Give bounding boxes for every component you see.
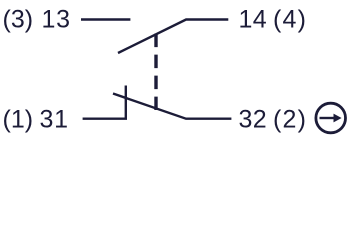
terminal label (3)13 bbox=[3, 6, 71, 34]
svg-text:(3): (3) bbox=[3, 6, 34, 34]
svg-text:31: 31 bbox=[40, 106, 69, 134]
wire: actuator dashed link bbox=[154, 34, 157, 110]
wire: lead 31 with fixed contact bar bbox=[83, 86, 126, 119]
svg-text:(4): (4) bbox=[273, 6, 307, 34]
terminal label (1)31 bbox=[3, 106, 69, 134]
svg-text:(1): (1) bbox=[3, 106, 34, 134]
contact NO 13-14 moving arm bbox=[118, 20, 228, 54]
svg-text:32: 32 bbox=[239, 106, 268, 134]
terminal label 14(4) bbox=[239, 6, 308, 34]
terminal label 32(2) bbox=[239, 106, 308, 134]
wire: lead 13 bbox=[81, 18, 130, 20]
icon: circled arrow (actuating direction) bbox=[316, 103, 346, 133]
svg-text:14: 14 bbox=[239, 6, 268, 34]
contact NC 31-32 moving arm bbox=[113, 94, 231, 119]
svg-text:13: 13 bbox=[42, 6, 71, 34]
svg-text:(2): (2) bbox=[273, 106, 307, 134]
